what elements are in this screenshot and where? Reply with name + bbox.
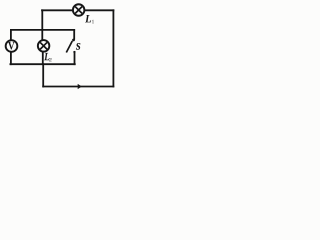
label s xyxy=(76,43,80,50)
label L1 letter L xyxy=(85,15,91,22)
switch S blade xyxy=(66,41,72,53)
switch S bottom pivot xyxy=(73,51,75,53)
wire L2 bottom stub xyxy=(42,52,44,65)
wire inner top rail xyxy=(11,29,74,31)
wire bottom xyxy=(43,86,113,88)
label L2 subscript 2 xyxy=(49,58,52,61)
switch S top contact dot xyxy=(72,39,75,42)
wire voltmeter bottom stub xyxy=(10,52,12,64)
lamp L2 xyxy=(38,40,50,52)
wire switch bottom lead xyxy=(74,52,76,64)
wire inner bottom rail xyxy=(10,63,74,65)
wire drop from inner bottom rail to bottom wire xyxy=(42,64,44,86)
wire top (L1 branch) xyxy=(42,9,113,11)
wire right side xyxy=(112,10,114,86)
wire vertical from top wire down to lamp L2 xyxy=(41,10,43,40)
current arrow on bottom wire xyxy=(78,84,82,89)
lamp L1 xyxy=(73,4,85,16)
wire switch top drop xyxy=(73,30,75,39)
wire voltmeter top stub xyxy=(10,30,12,40)
label L2 letter L xyxy=(44,53,49,60)
label L1 subscript 1 xyxy=(92,20,94,23)
voltmeter letter V xyxy=(8,42,15,50)
voltmeter V circle xyxy=(6,40,18,52)
